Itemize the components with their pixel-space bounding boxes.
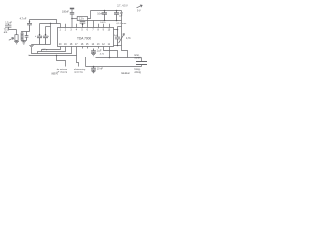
node <box>109 57 111 59</box>
wire corner <box>85 57 87 67</box>
capacitor C6 under resistor <box>80 22 86 28</box>
svg-text:8: 8 <box>98 30 100 32</box>
svg-text:4: 4 <box>76 30 78 32</box>
wire top rail <box>91 10 122 12</box>
wire right-side bottom link <box>114 45 122 47</box>
ground C11 <box>91 53 96 55</box>
resistor R2 <box>77 17 87 21</box>
wire <box>16 41 18 42</box>
svg-text:1,5 nF: 1,5 nF <box>5 21 12 24</box>
svg-text:4,7 µ: 4,7 µ <box>42 49 48 51</box>
resistor R1 <box>15 35 18 41</box>
ground C12 <box>91 71 95 73</box>
wire bottom nest 4 <box>29 47 77 56</box>
node <box>50 23 51 24</box>
node supply junction <box>71 18 73 20</box>
wire bottom rail <box>32 44 51 46</box>
wire tank rails <box>21 32 29 41</box>
capacitor C3 4n7 series <box>27 20 32 32</box>
antenna arrow <box>9 38 14 41</box>
svg-text:+: + <box>41 35 43 38</box>
ground mid <box>29 45 34 48</box>
ground R1 <box>14 42 19 44</box>
wire link IC right <box>114 29 118 31</box>
wire second bus <box>40 23 61 25</box>
svg-text:15: 15 <box>86 44 89 46</box>
svg-text:17: 17 <box>75 44 78 46</box>
node <box>117 29 119 31</box>
potentiometer arrow <box>119 34 125 44</box>
svg-text:hoog-: hoog- <box>135 69 141 71</box>
wire right riser down <box>121 11 123 27</box>
svg-text:4,7k: 4,7k <box>126 37 131 40</box>
svg-text:Elektuur: Elektuur <box>122 72 131 75</box>
IC U1 bottom pin stubs <box>83 47 99 49</box>
wire out line <box>96 57 134 59</box>
wire <box>72 18 77 20</box>
node <box>116 10 118 12</box>
node <box>116 20 118 22</box>
wire lower out line <box>86 66 142 68</box>
wire <box>71 9 73 12</box>
svg-text:10: 10 <box>108 30 111 32</box>
node <box>104 20 106 22</box>
wire column D <box>50 24 52 45</box>
node <box>39 34 41 36</box>
wire rail2 <box>88 20 122 22</box>
svg-text:ant.: ant. <box>4 31 8 34</box>
wire column B <box>39 24 41 37</box>
wire stub6 riser <box>87 21 89 28</box>
svg-text:7: 7 <box>92 30 94 32</box>
svg-text:14: 14 <box>92 44 95 46</box>
wire supply to pin 3 <box>71 19 73 28</box>
svg-text:4,7n: 4,7n <box>100 54 105 56</box>
wire pin1 riser <box>60 24 62 28</box>
svg-text:13: 13 <box>97 44 100 46</box>
svg-text:10nF: 10nF <box>97 12 103 15</box>
wire pot to earpiece <box>122 46 128 58</box>
wire earpiece top lead <box>134 58 142 62</box>
svg-text:11: 11 <box>108 44 111 46</box>
ground tank <box>22 41 26 45</box>
capacitor C2 tank <box>25 32 29 41</box>
svg-text:spanning: spanning <box>74 72 84 74</box>
wire <box>71 14 73 18</box>
wire audio out hook <box>104 47 118 58</box>
svg-text:+: + <box>35 35 37 38</box>
svg-text:18: 18 <box>70 44 73 46</box>
svg-text:10 nF: 10 nF <box>97 68 104 71</box>
svg-text:1: 1 <box>60 30 62 32</box>
IC U1 top pin stubs <box>66 24 110 28</box>
svg-text:4,7 nF: 4,7 nF <box>20 17 27 20</box>
svg-text:3: 3 <box>70 30 72 32</box>
inductor L1 tank <box>21 33 23 40</box>
text labels <box>4 5 142 75</box>
wire bottom nest 1 <box>42 47 61 52</box>
svg-text:2,7...4,5 V: 2,7...4,5 V <box>117 5 128 7</box>
wire earpiece bottom lead <box>141 65 143 67</box>
svg-text:1 µF: 1 µF <box>97 50 102 53</box>
node <box>117 45 119 47</box>
node <box>45 34 47 36</box>
svg-text:4,5 V max.: 4,5 V max. <box>116 23 127 25</box>
capacitor C8 10nF <box>102 11 107 21</box>
node <box>82 24 84 26</box>
svg-text:12: 12 <box>102 44 105 46</box>
wire hook top long <box>30 20 57 24</box>
wire pin down <box>109 47 111 58</box>
capacitor C4 <box>37 36 42 44</box>
potentiometer P1 <box>121 27 123 46</box>
node <box>93 66 95 68</box>
capacitor C1 top-left plates <box>5 25 11 27</box>
svg-text:9 V: 9 V <box>137 9 141 12</box>
svg-text:ohmig: ohmig <box>135 72 142 74</box>
svg-text:100 n: 100 n <box>100 22 106 24</box>
wire drop LF out <box>57 56 66 67</box>
capacitor C9 4u7 <box>114 11 119 21</box>
wire <box>9 24 17 35</box>
IC U1 TDA7000 body <box>58 28 114 47</box>
node rail C8 <box>104 10 106 12</box>
svg-text:100nF: 100nF <box>62 11 69 14</box>
node <box>29 21 30 22</box>
capacitor C12 to ground <box>91 67 96 72</box>
wire column C <box>45 27 47 37</box>
svg-text:16: 16 <box>81 44 84 46</box>
svg-text:krist.: krist. <box>135 54 140 57</box>
capacitor C10 right of IC <box>115 30 120 46</box>
svg-text:6: 6 <box>87 30 89 32</box>
svg-text:oortel.: oortel. <box>135 56 142 59</box>
wire bottom nest 2 <box>38 47 66 54</box>
node <box>56 55 57 56</box>
svg-text:19: 19 <box>64 44 67 46</box>
svg-text:TDA 7000: TDA 7000 <box>77 37 91 41</box>
svg-text:+: + <box>48 35 50 38</box>
wire top bar cap-pot <box>118 26 122 28</box>
supply bar VCC <box>70 8 74 10</box>
battery arrow top right <box>137 5 143 8</box>
svg-text:2: 2 <box>65 30 67 32</box>
wire hook 3 <box>46 26 51 28</box>
svg-text:86970: 86970 <box>52 74 59 76</box>
capacitor C5 <box>43 36 48 44</box>
svg-text:9: 9 <box>103 30 105 32</box>
wire drop tuning <box>77 56 79 67</box>
capacitor C7 100nF plates <box>70 13 74 14</box>
wire bottom nest 3 <box>32 47 72 54</box>
wire stub7 riser <box>93 21 95 28</box>
wire cap10 riser <box>117 27 119 30</box>
svg-text:2,2 k: 2,2 k <box>79 18 85 21</box>
svg-text:20: 20 <box>59 44 62 46</box>
svg-text:LF uitgang: LF uitgang <box>57 71 68 74</box>
svg-text:5: 5 <box>81 30 83 32</box>
capacitor C11 to ground <box>91 49 96 54</box>
earpiece LS1 <box>136 62 147 65</box>
wire <box>88 11 91 19</box>
